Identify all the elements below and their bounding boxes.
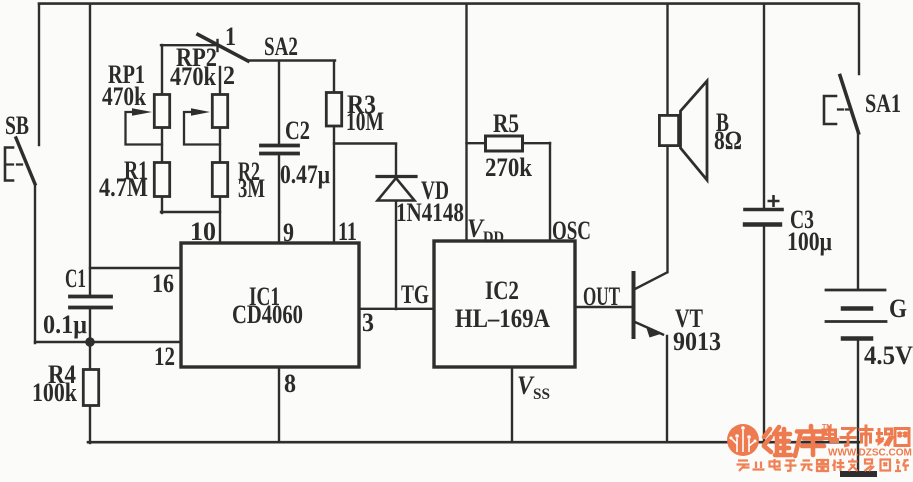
svg-text:4.7M: 4.7M bbox=[99, 173, 148, 202]
svg-text:470k: 470k bbox=[170, 62, 216, 91]
svg-text:0.47μ: 0.47μ bbox=[280, 161, 330, 189]
svg-text:SA1: SA1 bbox=[865, 90, 901, 119]
svg-text:8Ω: 8Ω bbox=[714, 127, 742, 155]
svg-text:10M: 10M bbox=[346, 107, 384, 135]
svg-text:270k: 270k bbox=[485, 154, 532, 183]
svg-text:1N4148: 1N4148 bbox=[396, 199, 464, 228]
svg-text:16: 16 bbox=[152, 270, 174, 298]
svg-text:SA2: SA2 bbox=[264, 32, 298, 60]
svg-text:4.5V: 4.5V bbox=[864, 342, 913, 371]
svg-text:SB: SB bbox=[5, 110, 29, 139]
svg-text:HL–169A: HL–169A bbox=[455, 305, 550, 334]
svg-text:2: 2 bbox=[223, 62, 235, 90]
svg-text:WWW.DZSC.COM: WWW.DZSC.COM bbox=[828, 448, 912, 459]
svg-text:9013: 9013 bbox=[673, 328, 721, 356]
svg-text:OSC: OSC bbox=[552, 216, 591, 245]
svg-text:C1: C1 bbox=[65, 263, 86, 292]
svg-text:DD: DD bbox=[483, 228, 504, 246]
svg-text:9: 9 bbox=[283, 219, 294, 247]
svg-text:IC2: IC2 bbox=[485, 277, 519, 306]
svg-text:8: 8 bbox=[284, 370, 296, 398]
svg-text:10: 10 bbox=[190, 217, 216, 246]
svg-text:470k: 470k bbox=[102, 83, 147, 111]
svg-text:SS: SS bbox=[533, 386, 550, 403]
svg-text:CD4060: CD4060 bbox=[232, 301, 303, 330]
svg-text:100μ: 100μ bbox=[787, 228, 832, 256]
svg-text:100k: 100k bbox=[32, 379, 78, 407]
svg-text:R5: R5 bbox=[493, 110, 519, 138]
svg-text:3M: 3M bbox=[238, 174, 265, 203]
svg-text:G: G bbox=[889, 295, 907, 324]
svg-text:OUT: OUT bbox=[583, 281, 620, 311]
svg-text:C2: C2 bbox=[285, 117, 310, 146]
svg-text:11: 11 bbox=[338, 218, 357, 247]
svg-text:3: 3 bbox=[362, 309, 374, 337]
svg-text:1: 1 bbox=[225, 23, 236, 51]
svg-text:TG: TG bbox=[401, 280, 429, 308]
svg-text:0.1μ: 0.1μ bbox=[43, 311, 87, 339]
svg-text:12: 12 bbox=[154, 343, 175, 372]
svg-text:TM: TM bbox=[822, 424, 832, 431]
